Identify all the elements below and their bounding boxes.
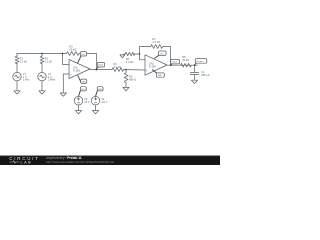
resistor R1 <box>15 56 19 64</box>
svg-text:TL081: TL081 <box>149 64 157 68</box>
svg-text:LAB: LAB <box>21 161 33 165</box>
wire R5 stubs <box>125 70 127 73</box>
svg-text:680 μF: 680 μF <box>201 73 210 77</box>
wire V4 ground <box>95 105 97 111</box>
resistor R8 <box>181 63 192 67</box>
svg-text:VCC: VCC <box>81 54 86 56</box>
ground V3 <box>75 111 81 114</box>
node dot rail R2 <box>41 53 43 55</box>
source V1 <box>13 72 21 80</box>
wire R6 ground stub <box>122 53 125 56</box>
wire R6 to node B <box>135 53 140 55</box>
node dot A <box>62 53 64 55</box>
op-amp U2 <box>145 55 167 75</box>
wire R3 to feedback corner <box>79 54 96 70</box>
svg-text:1 kHz: 1 kHz <box>23 78 30 82</box>
svg-text:-: - <box>146 58 147 62</box>
flag node Vout1 <box>97 62 104 67</box>
wire C1 top <box>194 65 196 72</box>
source V2 <box>38 72 46 80</box>
svg-text:VCC: VCC <box>160 53 165 55</box>
svg-text:+: + <box>70 73 72 77</box>
svg-text:3.3 kΩ: 3.3 kΩ <box>126 60 134 64</box>
resistor R6 <box>125 52 135 55</box>
svg-text:-: - <box>70 63 71 67</box>
svg-text:+: + <box>146 68 148 72</box>
ground V2 <box>39 91 45 94</box>
node dot C1 <box>194 64 196 66</box>
wire flag stub VCC U2 <box>155 55 159 58</box>
svg-text:30 kΩ: 30 kΩ <box>182 58 189 62</box>
svg-text:VEE: VEE <box>98 89 103 91</box>
svg-text:-15 V: -15 V <box>101 100 107 104</box>
wire flag stub Vout1 <box>96 67 98 69</box>
resistor R5 <box>124 73 128 83</box>
flag node Vout2 <box>171 59 180 64</box>
svg-text:680 Ω: 680 Ω <box>129 78 136 82</box>
wire flag stub VEE V4 <box>96 91 98 97</box>
wire flag stub VCC U1 <box>78 56 81 63</box>
wire flag stub VEE U2 <box>152 70 156 73</box>
svg-text:VCC: VCC <box>81 89 86 91</box>
wire U1 output <box>90 69 112 71</box>
flag VEE U1 <box>81 79 87 83</box>
flag VEE U2 <box>156 73 164 77</box>
resistor R7 <box>151 45 163 49</box>
flag VEE V4 <box>97 87 103 91</box>
svg-text:Vout1: Vout1 <box>98 64 104 67</box>
wire R2 stubs <box>41 54 43 57</box>
resistor R4 <box>112 68 124 72</box>
resistor R3 <box>66 52 79 56</box>
wire flag stub VCC V3 <box>79 91 81 97</box>
wire V2 to ground <box>41 81 43 91</box>
wire noninverting input to ground <box>63 74 69 93</box>
flag VCC U2 <box>159 51 167 55</box>
svg-text:VEE: VEE <box>82 81 87 83</box>
source V4 <box>91 96 100 105</box>
ground V1 <box>14 91 20 94</box>
flag node Vout <box>195 59 207 64</box>
wire feedback top <box>140 46 151 48</box>
wire V3 ground <box>78 105 80 111</box>
capacitor C1 <box>190 71 198 73</box>
wire node B vertical <box>139 47 141 60</box>
wire V1 to ground <box>16 81 18 91</box>
ground V4 <box>92 111 98 114</box>
svg-text:2.2 kΩ: 2.2 kΩ <box>152 40 160 44</box>
flag VCC V3 <box>80 87 86 91</box>
wire top rail stage1 <box>17 53 66 55</box>
wire flag stub node Vout2 <box>171 64 173 65</box>
ground R5 <box>123 87 129 90</box>
op-amp U1 <box>69 60 90 79</box>
ground R6 <box>120 55 125 58</box>
svg-text:5.1 kΩ: 5.1 kΩ <box>20 59 28 63</box>
svg-text:http://www.circuitlab.com/circ: http://www.circuitlab.com/circuit/5pahsb… <box>46 160 115 164</box>
svg-text:5.1 kΩ: 5.1 kΩ <box>45 59 53 63</box>
svg-text:TL081: TL081 <box>73 69 81 73</box>
wire R4 to op-amp U2 <box>124 69 146 71</box>
resistor R2 <box>40 56 44 64</box>
source V3 <box>74 96 83 105</box>
svg-text:VEE: VEE <box>158 75 163 77</box>
node dot B <box>139 53 141 55</box>
flag VCC U1 <box>80 52 86 56</box>
wire node A to inverting input <box>63 54 70 65</box>
wire C1 bottom <box>194 74 196 80</box>
wire flag stub node Vout <box>195 63 197 65</box>
wire R7 to output <box>163 47 171 66</box>
svg-text:3.4 kΩ: 3.4 kΩ <box>113 65 121 69</box>
node dot Vout2 <box>170 64 172 66</box>
svg-text:Voutput: Voutput <box>196 60 203 63</box>
wire node B to U2 inverting input <box>140 59 146 61</box>
ground C1 <box>191 80 197 83</box>
node dot R5 <box>125 69 127 71</box>
wire R1 stubs <box>16 54 18 57</box>
svg-text:1 MHz: 1 MHz <box>48 78 56 82</box>
wire flag stub VEE U1 <box>78 76 81 83</box>
svg-text:Vout2: Vout2 <box>172 61 178 64</box>
node dot U1 output feedback <box>96 69 98 71</box>
footer bar <box>0 156 220 165</box>
ground op-amp U1 input <box>60 93 66 96</box>
svg-text:15 V: 15 V <box>84 100 90 104</box>
svg-text:20 kΩ: 20 kΩ <box>69 48 76 52</box>
wire U2 output <box>167 64 197 66</box>
